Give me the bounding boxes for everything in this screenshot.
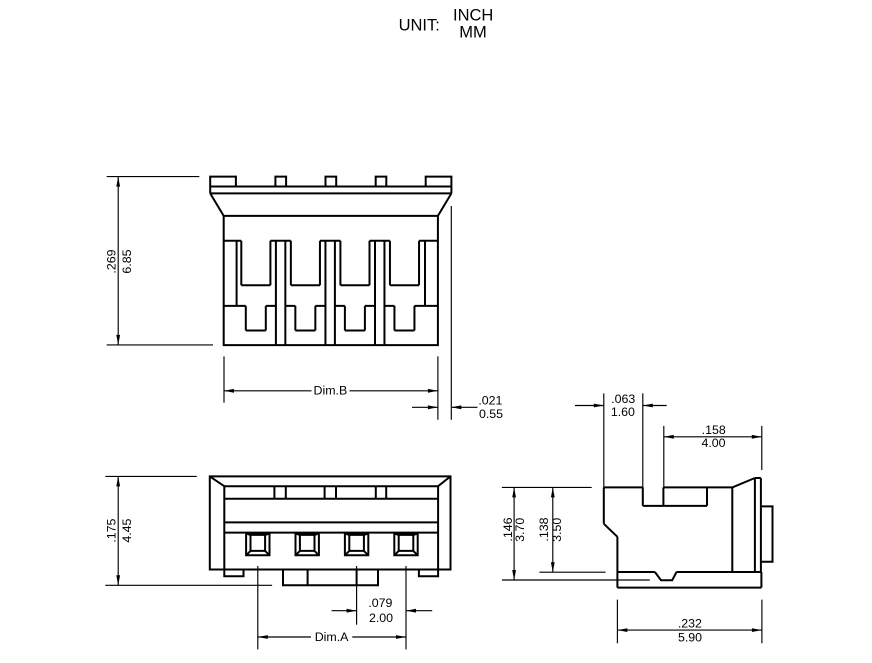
- front view contact cavities: [241, 241, 419, 285]
- bottom view band key slots: [274, 486, 386, 499]
- svg-text:INCH: INCH: [453, 7, 493, 25]
- bottom view corner bevels: [210, 476, 451, 486]
- bottom view top band: [224, 486, 438, 499]
- dim .021 arrow right: [428, 405, 438, 409]
- svg-text:.079: .079: [368, 596, 392, 610]
- front view cavity cap line: [224, 240, 438, 242]
- dim .146 arrow down: [512, 570, 516, 580]
- pin 4 extension line: [405, 566, 407, 649]
- bottom view face lines: [224, 522, 438, 532]
- svg-text:3.70: 3.70: [513, 518, 527, 542]
- dim Dim.B extension lines: [224, 356, 438, 419]
- svg-text:.063: .063: [611, 392, 635, 406]
- svg-text:.269: .269: [105, 249, 119, 273]
- Dim.B arrow right: [428, 389, 438, 393]
- svg-text:6.85: 6.85: [120, 249, 134, 273]
- svg-text:3.50: 3.50: [550, 518, 564, 542]
- svg-text:5.90: 5.90: [678, 630, 702, 644]
- bottom view right foot: [419, 570, 438, 577]
- dim .138 bottom extension line: [539, 571, 605, 573]
- front view top tabs: [210, 177, 451, 187]
- dim .079 arrow left: [406, 609, 416, 613]
- svg-text:.021: .021: [478, 393, 502, 407]
- dim .175 extension lines: [105, 476, 272, 585]
- svg-text:.175: .175: [105, 518, 119, 542]
- dim .063 arrow right: [594, 404, 604, 408]
- side view standoff notch: [655, 572, 677, 580]
- dim .146 line: [513, 487, 515, 580]
- side view left edge: [604, 487, 618, 587]
- side view front boss: [761, 506, 773, 561]
- front view top collar band: [210, 187, 451, 194]
- dim .175 arrow up: [116, 476, 120, 486]
- bottom view left foot: [224, 570, 243, 577]
- dim .079 arrow right: [347, 609, 357, 613]
- dim .021 arrow left: [451, 405, 461, 409]
- side view base outline: [617, 572, 761, 588]
- bottom view center boss: [283, 570, 378, 586]
- dim .146 arrow up: [512, 487, 516, 497]
- dim .269 line: [117, 177, 119, 345]
- Dim.A arrow left: [258, 635, 268, 639]
- svg-text:.232: .232: [678, 617, 702, 631]
- dim .138 line: [552, 487, 554, 572]
- dim .146 bottom extension line: [502, 579, 650, 581]
- dim .232 line: [617, 629, 762, 631]
- front view collar slants: [210, 193, 451, 216]
- svg-text:4.45: 4.45: [120, 518, 134, 542]
- dim .269 arrow down: [116, 335, 120, 345]
- svg-text:1.60: 1.60: [611, 405, 635, 419]
- svg-text:Dim.A: Dim.A: [315, 630, 349, 644]
- side view latch notch: [643, 487, 707, 506]
- dim .158 arrow left: [664, 435, 674, 439]
- side view base top line: [617, 571, 761, 573]
- svg-text:0.55: 0.55: [479, 407, 503, 421]
- dim .269 arrow up: [116, 177, 120, 187]
- bottom view inner walls: [224, 486, 438, 569]
- pin 3 extension line: [356, 566, 358, 625]
- dim .138 arrow up: [551, 487, 555, 497]
- dim .175 arrow down: [116, 575, 120, 585]
- dim .063 extension lines: [604, 393, 643, 487]
- pin 1 extension line: [257, 566, 259, 649]
- side view top edge: [604, 486, 733, 488]
- dim .021 extension line: [450, 206, 452, 420]
- svg-text:4.00: 4.00: [701, 436, 725, 450]
- front view divider channels: [276, 241, 385, 345]
- bottom view pin openings inner: [251, 535, 414, 551]
- dim .232 arrow right: [752, 628, 762, 632]
- dim .232 extension lines: [617, 600, 762, 644]
- dim .021 arrow shafts: [412, 406, 478, 408]
- dim .158 extension lines: [664, 426, 762, 488]
- dim .175 line: [117, 476, 119, 585]
- side view mating face verticals: [732, 478, 761, 572]
- front view ledge line: [224, 305, 438, 307]
- front view body outline: [224, 216, 438, 345]
- Dim.B arrow left: [224, 389, 234, 393]
- dim .063 arrow left: [643, 404, 653, 408]
- dim Dim.B line: [224, 390, 438, 392]
- bottom view pin openings outer: [246, 534, 418, 556]
- svg-text:MM: MM: [459, 23, 487, 41]
- dim .232 arrow left: [617, 628, 627, 632]
- dim .158 line: [664, 436, 762, 438]
- Dim.A arrow right: [396, 635, 406, 639]
- side top extension line: [502, 486, 592, 488]
- dim .158 arrow right: [752, 435, 762, 439]
- side view front slant: [732, 478, 761, 487]
- dim .138 arrow down: [551, 562, 555, 572]
- dim Dim.A line: [258, 636, 406, 638]
- dim .269 extension lines: [107, 177, 213, 345]
- bottom view pin opening bevels: [246, 534, 418, 556]
- front view side finger slots: [237, 241, 425, 306]
- svg-text:2.00: 2.00: [369, 611, 393, 625]
- svg-text:UNIT:: UNIT:: [399, 17, 440, 35]
- front view lower slots: [246, 306, 415, 331]
- dim .063 arrow shafts: [575, 405, 667, 407]
- bottom view outer outline: [210, 476, 451, 569]
- dim .079 arrow shafts: [332, 610, 433, 612]
- svg-text:Dim.B: Dim.B: [314, 384, 348, 398]
